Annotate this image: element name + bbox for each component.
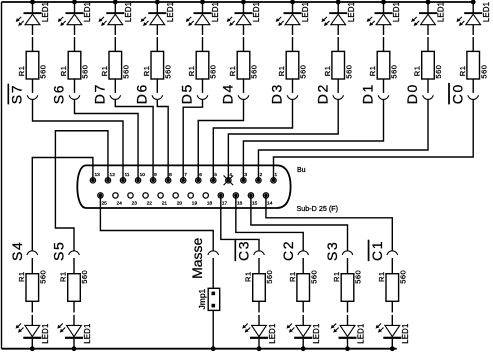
svg-text:R1: R1 <box>332 271 341 282</box>
svg-text:C0: C0 <box>449 83 465 104</box>
value label LED1 (D6 branch) <box>166 2 175 22</box>
svg-text:LED1: LED1 <box>41 2 50 22</box>
svg-text:R1: R1 <box>100 66 109 77</box>
junction D4 / top bus <box>241 0 246 4</box>
wire D1 to connector pin 3 <box>243 100 383 181</box>
wire resistor to LED (S4 branch) <box>31 301 33 325</box>
svg-text:23: 23 <box>132 201 138 207</box>
wire top bus to LED cathode (C0 branch) <box>472 2 474 12</box>
value 560 (D6 branch) <box>163 65 172 79</box>
svg-text:20: 20 <box>177 201 183 207</box>
svg-text:LED1: LED1 <box>268 323 277 343</box>
wire C2 to connector pin 16 <box>236 195 303 250</box>
value label LED1 (S4 branch) <box>41 323 50 343</box>
svg-text:R1: R1 <box>458 66 467 77</box>
svg-text:21: 21 <box>162 201 168 207</box>
connector socket pin (D7 branch) <box>110 95 121 99</box>
svg-text:R1: R1 <box>288 271 297 282</box>
svg-text:560: 560 <box>209 65 218 79</box>
net label S6 <box>51 84 67 104</box>
wire resistor to socket (C0 branch) <box>472 79 474 93</box>
svg-text:Masse: Masse <box>189 237 205 278</box>
label R1 (D0 branch) <box>413 66 422 77</box>
svg-text:19: 19 <box>192 201 198 207</box>
LED LED1 (C2 branch) <box>286 324 312 339</box>
wire top bus (LED common, +) <box>2 1 474 3</box>
wire socket to resistor (S4 branch) <box>31 258 33 274</box>
wire resistor to socket (D2 branch) <box>337 79 339 93</box>
LED LED1 (S4 branch) <box>16 324 42 339</box>
resistor R1 (D5 branch) <box>196 51 209 79</box>
value 560 (C2 branch) <box>309 270 318 284</box>
svg-text:16: 16 <box>237 201 243 207</box>
connector socket pin (D5 branch) <box>197 95 208 99</box>
svg-text:LED1: LED1 <box>437 2 446 22</box>
net label C1 <box>369 240 385 261</box>
svg-text:S5: S5 <box>51 241 67 261</box>
label R1 (S4 branch) <box>17 271 26 282</box>
resistor R1 (S6 branch) <box>68 51 81 79</box>
pin 8 <box>165 172 172 183</box>
LED LED1 (D0 branch) <box>411 12 437 26</box>
wire LED anode to resistor (S7 branch) <box>32 25 34 52</box>
LED LED1 (C1 branch) <box>376 324 402 339</box>
svg-text:LED1: LED1 <box>312 323 321 343</box>
wire socket to resistor (S3 branch) <box>347 258 349 274</box>
resistor R1 (D4 branch) <box>237 51 250 79</box>
wire D7 to connector pin 9 <box>115 100 153 181</box>
value 560 (D1 branch) <box>390 65 399 79</box>
pin 4 <box>224 172 234 185</box>
svg-text:R1: R1 <box>277 66 286 77</box>
wire S3 to connector pin 15 <box>251 195 348 250</box>
junction D3 / top bus <box>290 0 295 4</box>
value 560 (S3 branch) <box>354 270 363 284</box>
wire LED to bottom bus (S5 branch) <box>73 339 75 349</box>
label Jmp1 <box>197 288 207 309</box>
connector socket pin (S5 branch) <box>69 251 80 255</box>
svg-text:LED1: LED1 <box>392 2 401 22</box>
value label LED1 (C0 branch) <box>482 2 491 22</box>
wire top bus to LED cathode (D2 branch) <box>337 2 339 12</box>
svg-text:R1: R1 <box>59 66 68 77</box>
wire resistor to LED (C3 branch) <box>258 301 260 325</box>
wire C3 to connector pin 17 <box>221 195 259 250</box>
wire LED anode to resistor (C0 branch) <box>472 25 474 52</box>
svg-text:560: 560 <box>39 65 48 79</box>
svg-text:R1: R1 <box>142 66 151 77</box>
svg-text:560: 560 <box>354 270 363 284</box>
svg-text:560: 560 <box>265 270 274 284</box>
svg-text:7: 7 <box>184 172 187 178</box>
pin 14 <box>263 193 272 207</box>
wire S5 to connector pin 12 <box>55 131 108 251</box>
pin 3 <box>241 172 248 183</box>
net label C3 <box>236 240 252 261</box>
pin 12 <box>105 172 115 183</box>
wire LED anode to resistor (D0 branch) <box>427 25 429 52</box>
LED LED1 (C0 branch) <box>456 12 482 26</box>
pin 18 <box>203 193 212 207</box>
pin 5 <box>211 172 218 183</box>
net label D5 <box>179 83 195 104</box>
svg-text:5: 5 <box>214 172 217 178</box>
junction S3 / bottom bus <box>345 346 350 351</box>
svg-text:Bu: Bu <box>297 167 306 174</box>
svg-text:LED1: LED1 <box>482 2 491 22</box>
net label D2 <box>314 83 330 104</box>
svg-text:Sub-D 25 (F): Sub-D 25 (F) <box>297 204 339 213</box>
label R1 (S6 branch) <box>59 66 68 77</box>
LED LED1 (S5 branch) <box>57 324 83 339</box>
connector socket pin (S3 branch) <box>342 251 353 255</box>
pin 9 <box>150 172 157 183</box>
junction D0 / top bus <box>426 0 431 4</box>
wire S4 to connector pin 13 <box>32 158 93 251</box>
label R1 (D5 branch) <box>187 66 196 77</box>
svg-text:LED1: LED1 <box>356 323 365 343</box>
wire resistor to socket (D6 branch) <box>156 79 158 93</box>
net label S3 <box>324 241 340 261</box>
wire LED anode to resistor (D2 branch) <box>337 25 339 52</box>
LED LED1 (D1 branch) <box>367 12 393 26</box>
value label LED1 (S7 branch) <box>41 2 50 22</box>
svg-text:3: 3 <box>244 172 247 178</box>
pin 11 <box>120 172 130 183</box>
wire D0 to connector pin 2 <box>258 100 428 181</box>
wire C1 to connector pin 14 <box>266 195 392 250</box>
connector socket pin (C2 branch) <box>298 251 309 255</box>
value 560 (S4 branch) <box>38 270 47 284</box>
net label D0 <box>404 83 420 104</box>
svg-text:10: 10 <box>140 172 146 178</box>
label R1 (D2 branch) <box>323 66 332 77</box>
svg-text:560: 560 <box>250 65 259 79</box>
svg-text:LED1: LED1 <box>83 2 92 22</box>
junction S5 / bottom bus <box>72 346 77 351</box>
connector socket pin (D3 branch) <box>287 95 298 99</box>
svg-text:R1: R1 <box>17 271 26 282</box>
pin 15 <box>248 193 257 207</box>
svg-text:560: 560 <box>390 65 399 79</box>
value label LED1 (S5 branch) <box>83 323 92 343</box>
resistor R1 (C2 branch) <box>297 274 310 302</box>
wire top bus to LED cathode (D4 branch) <box>243 2 245 12</box>
wire resistor to socket (S6 branch) <box>74 79 76 93</box>
wire LED anode to resistor (D7 branch) <box>114 25 116 52</box>
label R1 (D4 branch) <box>228 66 237 77</box>
LED LED1 (D2 branch) <box>321 12 347 26</box>
svg-text:D3: D3 <box>269 83 285 104</box>
wire D3 to connector pin 5 <box>213 100 292 181</box>
wire resistor to socket (D7 branch) <box>114 79 116 93</box>
wire resistor to socket (D3 branch) <box>292 79 294 93</box>
svg-text:C3: C3 <box>236 240 252 261</box>
connector socket pin (D6 branch) <box>152 95 163 99</box>
pin 1 <box>271 172 278 183</box>
wire top bus to LED cathode (S6 branch) <box>74 2 76 12</box>
svg-text:9: 9 <box>154 172 157 178</box>
wire top bus to LED cathode (D7 branch) <box>114 2 116 12</box>
value 560 (S7 branch) <box>39 65 48 79</box>
value label LED1 (S6 branch) <box>83 2 92 22</box>
svg-text:560: 560 <box>309 270 318 284</box>
value label LED1 (D3 branch) <box>301 2 310 22</box>
net label D7 <box>91 83 107 104</box>
wire left border (bus loop) <box>1 2 3 349</box>
svg-text:R1: R1 <box>17 66 26 77</box>
svg-text:R1: R1 <box>187 66 196 77</box>
wire D4 to connector pin 6 <box>198 100 243 181</box>
svg-text:560: 560 <box>81 65 90 79</box>
wire resistor to socket (S7 branch) <box>32 79 34 93</box>
wire LED anode to resistor (D6 branch) <box>156 25 158 52</box>
junction D2 / top bus <box>336 0 341 4</box>
junction D7 / top bus <box>113 0 118 4</box>
net label D1 <box>360 83 376 104</box>
svg-text:560: 560 <box>80 270 89 284</box>
label R1 (C3 branch) <box>244 271 253 282</box>
svg-text:LED1: LED1 <box>401 323 410 343</box>
connector socket pin (S4 branch) <box>27 251 38 255</box>
pin 21 <box>158 193 167 207</box>
wire top bus to LED cathode (D3 branch) <box>292 2 294 12</box>
label R1 (S3 branch) <box>332 271 341 282</box>
svg-text:LED1: LED1 <box>166 2 175 22</box>
svg-text:S7: S7 <box>9 84 25 104</box>
svg-text:18: 18 <box>207 201 213 207</box>
wire socket to resistor (C1 branch) <box>391 258 393 274</box>
svg-text:24: 24 <box>117 201 123 207</box>
svg-text:S3: S3 <box>324 241 340 261</box>
label R1 (D3 branch) <box>277 66 286 77</box>
value 560 (S6 branch) <box>81 65 90 79</box>
wire resistor to socket (D4 branch) <box>243 79 245 93</box>
svg-text:LED1: LED1 <box>41 323 50 343</box>
pin 10 <box>135 172 145 183</box>
resistor R1 (D2 branch) <box>332 51 345 79</box>
wire S6 to connector pin 10 <box>75 100 139 181</box>
net label D6 <box>133 83 149 104</box>
wire resistor to socket (D0 branch) <box>427 79 429 93</box>
junction C1 / bottom bus <box>390 346 395 351</box>
svg-text:R1: R1 <box>244 271 253 282</box>
svg-text:LED1: LED1 <box>301 2 310 22</box>
net label C0 <box>449 83 465 104</box>
resistor R1 (S5 branch) <box>68 274 81 302</box>
resistor R1 (D7 branch) <box>109 51 122 79</box>
connector socket pin (S6 branch) <box>69 95 80 99</box>
resistor R1 (D0 branch) <box>422 51 435 79</box>
label R1 (D7 branch) <box>100 66 109 77</box>
value label LED1 (C3 branch) <box>268 323 277 343</box>
net label S4 <box>9 241 25 261</box>
value 560 (D7 branch) <box>121 65 130 79</box>
wire LED anode to resistor (D5 branch) <box>202 25 204 52</box>
junction C0 / top bus <box>471 0 476 4</box>
svg-text:17: 17 <box>222 201 228 207</box>
wire top bus to LED cathode (S7 branch) <box>32 2 34 12</box>
svg-text:C1: C1 <box>369 240 385 261</box>
svg-text:R1: R1 <box>59 271 68 282</box>
wire LED to bottom bus (C2 branch) <box>302 339 304 349</box>
wire resistor to socket (D1 branch) <box>383 79 385 93</box>
svg-text:6: 6 <box>199 172 202 178</box>
junction Masse / bottom bus <box>211 346 216 351</box>
junction D6 / top bus <box>155 0 160 4</box>
svg-text:D6: D6 <box>133 83 149 104</box>
resistor R1 (D1 branch) <box>377 51 390 79</box>
connector socket pin (C0 branch) <box>468 95 479 99</box>
resistor R1 (C0 branch) <box>467 51 480 79</box>
svg-text:11: 11 <box>125 172 130 178</box>
svg-text:LED1: LED1 <box>347 2 356 22</box>
value 560 (C1 branch) <box>398 270 407 284</box>
connector socket pin (C3 branch) <box>254 251 265 255</box>
wire LED anode to resistor (S6 branch) <box>74 25 76 52</box>
value 560 (D0 branch) <box>434 65 443 79</box>
LED LED1 (S3 branch) <box>331 324 357 339</box>
wire bottom bus (LED common return) <box>2 348 397 350</box>
wire top bus to LED cathode (D1 branch) <box>383 2 385 12</box>
junction S7 / top bus <box>30 0 35 4</box>
value label LED1 (C2 branch) <box>312 323 321 343</box>
pin 16 <box>233 193 242 207</box>
svg-text:S6: S6 <box>51 84 67 104</box>
svg-text:15: 15 <box>252 201 258 207</box>
svg-text:LED1: LED1 <box>252 2 261 22</box>
junction C2 / bottom bus <box>301 346 306 351</box>
svg-text:D5: D5 <box>179 83 195 104</box>
wire top bus to LED cathode (D6 branch) <box>156 2 158 12</box>
LED LED1 (D7 branch) <box>99 12 125 26</box>
svg-text:R1: R1 <box>377 271 386 282</box>
value label LED1 (C1 branch) <box>401 323 410 343</box>
pin 13 <box>90 172 100 183</box>
svg-text:Jmp1: Jmp1 <box>197 288 207 309</box>
svg-text:LED1: LED1 <box>211 2 220 22</box>
value 560 (D4 branch) <box>250 65 259 79</box>
resistor R1 (C1 branch) <box>386 274 399 302</box>
pin 20 <box>173 193 182 207</box>
label R1 (C2 branch) <box>288 271 297 282</box>
LED LED1 (S6 branch) <box>58 12 84 26</box>
pin 25 <box>98 193 107 207</box>
label R1 (C1 branch) <box>377 271 386 282</box>
wire C0 to connector pin 1 <box>274 100 474 181</box>
svg-text:S4: S4 <box>9 241 25 261</box>
LED LED1 (D4 branch) <box>227 12 253 26</box>
value 560 (C3 branch) <box>265 270 274 284</box>
pin 7 <box>181 172 188 183</box>
resistor R1 (D3 branch) <box>286 51 299 79</box>
svg-text:22: 22 <box>147 201 153 207</box>
svg-text:D4: D4 <box>220 83 236 104</box>
svg-text:LED1: LED1 <box>83 323 92 343</box>
junction C3 / bottom bus <box>257 346 262 351</box>
wire socket to resistor (C3 branch) <box>258 258 260 274</box>
svg-text:4: 4 <box>229 172 232 178</box>
svg-text:LED1: LED1 <box>124 2 133 22</box>
value 560 (D3 branch) <box>299 65 308 79</box>
value label LED1 (D4 branch) <box>252 2 261 22</box>
pin 23 <box>128 193 137 207</box>
value 560 (D2 branch) <box>344 65 353 79</box>
net label D3 <box>269 83 285 104</box>
junction S6 / top bus <box>72 0 77 4</box>
label R1 (D1 branch) <box>368 66 377 77</box>
wire top bus to LED cathode (D0 branch) <box>427 2 429 12</box>
connector socket pin (S7 branch) <box>27 95 38 99</box>
wire resistor to LED (S3 branch) <box>347 301 349 325</box>
resistor R1 (S7 branch) <box>26 51 39 79</box>
LED LED1 (S7 branch) <box>16 12 42 26</box>
wire resistor to LED (C2 branch) <box>302 301 304 325</box>
net label S7 <box>9 84 25 104</box>
value label LED1 (D7 branch) <box>124 2 133 22</box>
svg-text:560: 560 <box>398 270 407 284</box>
wire LED anode to resistor (D3 branch) <box>292 25 294 52</box>
svg-text:14: 14 <box>267 201 273 207</box>
wire Masse to connector pin 25 <box>100 195 213 250</box>
wire LED to bottom bus (S3 branch) <box>347 339 349 349</box>
svg-text:R1: R1 <box>323 66 332 77</box>
svg-text:D1: D1 <box>360 83 376 104</box>
svg-text:D7: D7 <box>91 83 107 104</box>
wire S7 to connector pin 11 <box>33 100 124 181</box>
svg-text:R1: R1 <box>228 66 237 77</box>
resistor R1 (D6 branch) <box>151 51 164 79</box>
value 560 (S5 branch) <box>80 270 89 284</box>
wire LED anode to resistor (D1 branch) <box>383 25 385 52</box>
svg-text:2: 2 <box>259 172 262 178</box>
wire LED to bottom bus (C1 branch) <box>391 339 393 349</box>
wire LED anode to resistor (D4 branch) <box>243 25 245 52</box>
LED LED1 (D6 branch) <box>141 12 167 26</box>
wire jumper to bottom bus (Masse branch) <box>212 310 214 348</box>
value label LED1 (D5 branch) <box>211 2 220 22</box>
wire LED to bottom bus (C3 branch) <box>258 339 260 349</box>
resistor R1 (S4 branch) <box>26 274 39 302</box>
svg-text:R1: R1 <box>413 66 422 77</box>
pin 6 <box>196 172 203 183</box>
value label LED1 (S3 branch) <box>356 323 365 343</box>
resistor R1 (C3 branch) <box>253 274 266 302</box>
label R1 (S5 branch) <box>59 271 68 282</box>
svg-text:25: 25 <box>102 201 108 207</box>
value 560 (C0 branch) <box>479 65 488 79</box>
net label C2 <box>280 240 296 261</box>
wire top bus to LED cathode (D5 branch) <box>202 2 204 12</box>
svg-text:C2: C2 <box>280 240 296 261</box>
jumper Jmp1 <box>208 288 220 310</box>
label R1 (D6 branch) <box>142 66 151 77</box>
value 560 (D5 branch) <box>209 65 218 79</box>
wire socket to resistor (C2 branch) <box>302 258 304 274</box>
label Sub-D 25 (F) <box>297 204 339 213</box>
resistor R1 (S3 branch) <box>341 274 354 302</box>
svg-text:1: 1 <box>275 172 278 178</box>
label R1 (S7 branch) <box>17 66 26 77</box>
pin 22 <box>143 193 152 207</box>
wire resistor to LED (C1 branch) <box>391 301 393 325</box>
wire socket to resistor (S5 branch) <box>73 258 75 274</box>
wire resistor to LED (S5 branch) <box>73 301 75 325</box>
svg-text:D0: D0 <box>404 83 420 104</box>
pin 19 <box>188 193 197 207</box>
LED LED1 (D5 branch) <box>186 12 212 26</box>
net label D4 <box>220 83 236 104</box>
